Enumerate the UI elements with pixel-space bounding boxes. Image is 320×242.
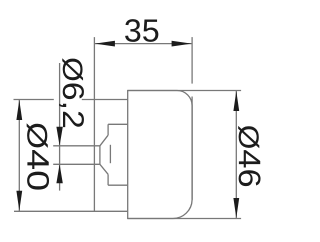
dim text ø6,2 <box>59 58 84 127</box>
countersink lower diagonal <box>100 164 108 174</box>
inner cone base line <box>109 145 111 163</box>
knob head outline <box>128 91 192 219</box>
ø6,2 dimension line <box>59 63 61 191</box>
dimension line 35 <box>94 43 192 45</box>
stem bottom edge <box>108 184 128 186</box>
arrow ø46 bottom <box>233 198 239 218</box>
hole top edge / ø6,2 extension <box>53 145 100 147</box>
arrow ø6,2 lower (points up) <box>56 164 62 183</box>
arrow ø40 bottom <box>16 191 22 211</box>
arrow 35 right <box>172 41 192 47</box>
ø40 dimension line <box>18 100 20 212</box>
arrow ø6,2 upper (points down) <box>56 127 62 146</box>
hole back vertical <box>99 146 101 165</box>
right extension line of 35 dim (lower segment, onto knob face) <box>191 97 193 200</box>
stem left face upper <box>107 124 109 135</box>
ø46 top extension line (collinear with head top edge) <box>128 90 241 92</box>
hole bottom edge / ø6,2 extension <box>53 163 100 165</box>
countersink upper diagonal <box>100 135 108 146</box>
arrow ø40 top <box>16 100 22 120</box>
dim text ø46 <box>238 126 260 186</box>
arrow ø46 top <box>233 91 239 111</box>
mounting surface / left extension line <box>93 37 95 211</box>
stem left face lower <box>107 174 109 185</box>
stem top edge <box>108 123 128 125</box>
ø40 bottom extension line <box>14 210 128 212</box>
dim text 35 <box>125 19 158 42</box>
ø40 top extension line <box>14 99 128 101</box>
ø46 bottom extension line <box>128 218 241 220</box>
arrow 35 left <box>95 41 115 47</box>
dim text ø40 <box>27 123 49 189</box>
white halo behind ø6,2 text <box>54 57 82 128</box>
right extension line of 35 dim (upper segment) <box>191 37 193 84</box>
ø46 dimension line <box>235 91 237 219</box>
